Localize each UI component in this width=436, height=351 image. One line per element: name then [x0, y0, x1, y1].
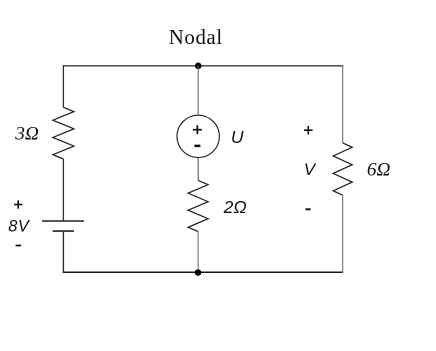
svg-text:V: V [304, 160, 317, 179]
wire left branch middle (3ohm to battery) [62, 159, 64, 221]
resistor 6ohm zigzag [333, 143, 352, 195]
svg-text:8V: 8V [8, 217, 31, 235]
battery 8V short plate [53, 230, 74, 232]
wire middle branch top (node to source U) [197, 66, 199, 116]
voltage source U circle [177, 115, 219, 157]
wire middle branch bottom (2ohm to bottom node) [197, 232, 199, 273]
wire top rail [63, 65, 344, 67]
svg-text:6Ω: 6Ω [367, 160, 391, 181]
wire bottom rail [63, 271, 343, 273]
wire middle branch (source U to 2ohm resistor) [197, 158, 199, 181]
minus sign of 8V source [16, 245, 22, 247]
svg-text:3Ω: 3Ω [14, 124, 39, 145]
plus sign of 8V source [14, 200, 22, 208]
wire left branch bottom (battery to bottom rail) [62, 231, 64, 273]
resistor 2ohm zigzag [188, 180, 208, 231]
svg-text:Nodal: Nodal [169, 26, 223, 49]
svg-text:2Ω: 2Ω [223, 197, 247, 217]
minus sign inside source U [194, 145, 200, 148]
wire right branch bottom (6ohm to bottom rail) [342, 195, 344, 273]
node B bottom node dot [195, 269, 202, 276]
wire left branch top (top rail to 3ohm resistor) [62, 66, 64, 108]
wire right branch top (top rail to 6ohm resistor) [342, 66, 344, 144]
plus sign inside source U [193, 125, 202, 134]
plus sign of V across 6ohm [304, 126, 313, 135]
resistor 3ohm zigzag [53, 107, 74, 159]
minus sign of V across 6ohm [306, 208, 311, 210]
battery 8V long plate [42, 220, 84, 222]
node A top node dot [195, 63, 202, 70]
svg-text:U: U [231, 127, 244, 147]
